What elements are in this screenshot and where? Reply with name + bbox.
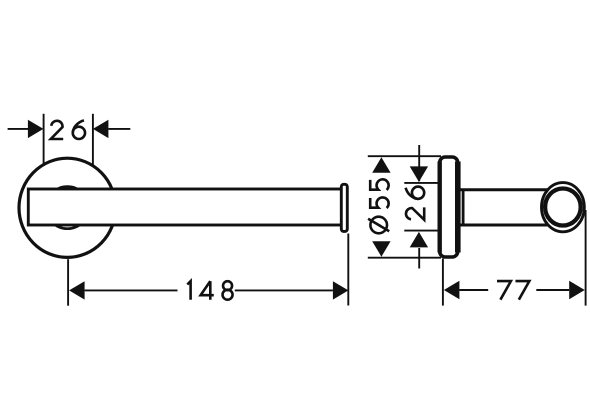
top arrow: [410, 166, 428, 182]
bottom extension line: [404, 230, 439, 232]
dim line right segment: [235, 289, 333, 291]
top tail line: [418, 145, 420, 181]
left extension line: [43, 114, 45, 165]
right extension line: [92, 114, 94, 166]
label 26 rotated: [406, 207, 424, 219]
bottom arrow: [372, 241, 390, 257]
left arrow: [444, 281, 460, 299]
left tail line: [8, 128, 29, 130]
bottom tail line: [418, 248, 420, 269]
bottom extension line: [368, 257, 441, 259]
label 77: [497, 281, 511, 300]
dimension diameter 55 (side view, left): [368, 156, 441, 258]
label 148: [187, 281, 190, 300]
joint line: [462, 190, 465, 225]
hub circle (26mm mounting hub, front view): [46, 187, 88, 229]
label 26: [51, 121, 63, 139]
left extension line: [442, 259, 444, 306]
top extension line: [404, 182, 439, 184]
77 right extension line (behind ring): [585, 210, 587, 306]
wall plate circle (front view, diameter 55): [19, 158, 116, 257]
dim line left segment: [85, 289, 178, 291]
bar end cap (front view): [341, 184, 347, 231]
dimension 148 (front view, bottom): [68, 234, 348, 306]
dim line right segment: [536, 289, 569, 291]
top arrow: [372, 157, 390, 173]
left arrow: [69, 281, 85, 299]
dim line left segment: [459, 289, 488, 291]
right tail line: [108, 128, 130, 130]
ring knob inner: [545, 189, 581, 226]
right arrow: [333, 281, 349, 299]
top extension line: [368, 155, 441, 157]
dimension 26 (front view, top): [8, 114, 131, 166]
right arrow: [93, 120, 109, 138]
dimension 26 (side view): [404, 145, 439, 269]
wall plate (side view): [440, 157, 458, 257]
label diameter55 rotated: [368, 217, 389, 234]
roll holder bar (front view): [28, 189, 342, 225]
left extension line: [67, 259, 69, 306]
right extension line: [347, 234, 349, 306]
dimension 77 (side view, bottom): [443, 259, 585, 306]
ring knob outer (side view): [542, 183, 585, 232]
right arrow: [569, 281, 585, 299]
left arrow: [28, 120, 44, 138]
bottom arrow: [410, 232, 428, 248]
rod (side view): [459, 190, 549, 225]
